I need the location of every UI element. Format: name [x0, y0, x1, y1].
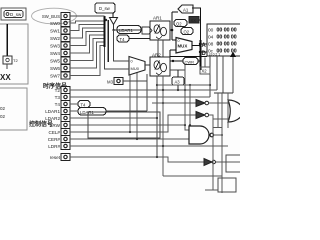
- wire M3 to MUX1 select: [123, 80, 147, 82]
- wire T3: [70, 96, 210, 98]
- output pin D_sw (top-left): [1, 8, 26, 20]
- input pin SW0: [50, 20, 70, 27]
- wire memory clock return: [214, 92, 233, 94]
- annotation box 1 (left, clipped): [0, 24, 28, 84]
- box bottom right 1: [226, 155, 246, 172]
- input pin SW4: [50, 50, 70, 57]
- svg-text:00: 00: [208, 28, 214, 34]
- svg-text:T3: T3: [55, 95, 61, 100]
- SW0-SW7 input pins: [50, 20, 70, 80]
- memory block: [207, 24, 244, 56]
- memory clock arrow: [230, 52, 236, 58]
- inverter G5 (bottom): [204, 159, 241, 166]
- wire vertical x213: [212, 119, 214, 190]
- svg-text:04: 04: [208, 35, 214, 41]
- wire SW3: [70, 32, 105, 46]
- AR2 second output: [170, 69, 185, 71]
- wires mux2 in: [172, 39, 176, 41]
- svg-text:02: 02: [0, 114, 6, 119]
- wire memory riser T3: [209, 56, 211, 97]
- wire: [189, 85, 191, 125]
- wire memory riser CE: [222, 56, 224, 93]
- wire CER#: [70, 138, 189, 140]
- svg-text:XX: XX: [191, 18, 197, 23]
- svg-text:T4: T4: [120, 37, 126, 42]
- long control wires: [70, 90, 228, 162]
- svg-text:SW3: SW3: [50, 44, 60, 49]
- svg-text:CER#: CER#: [48, 137, 61, 142]
- wire SW5: [70, 39, 105, 61]
- input pin SW2: [50, 35, 70, 42]
- wire LDAR2: [70, 117, 157, 119]
- inverter G2: [196, 112, 230, 120]
- wire D_sw to buffer: [112, 13, 114, 18]
- wire SW0: [70, 21, 105, 23]
- input pin T4: [55, 101, 70, 108]
- svg-text:00 00 00: 00 00 00: [217, 42, 237, 48]
- svg-text:MU0: MU0: [131, 66, 140, 71]
- inverter G1: [152, 100, 230, 107]
- right-bottom wires: [163, 93, 246, 193]
- label X2: [200, 58, 210, 75]
- svg-text:SW0: SW0: [50, 21, 60, 26]
- svg-text:SW1: SW1: [50, 29, 60, 34]
- svg-text:D: D: [202, 51, 207, 57]
- svg-text:T4: T4: [55, 102, 61, 107]
- wire SW2: [70, 28, 105, 38]
- wires below AR1: [157, 40, 159, 57]
- input pin SW_BUS: [42, 13, 70, 20]
- input pin LDAR1: [45, 108, 70, 115]
- svg-text:A3: A3: [175, 80, 181, 85]
- wire SW1: [70, 25, 105, 31]
- svg-text:CWR: CWR: [185, 60, 195, 65]
- svg-text:LRW: LRW: [50, 123, 61, 128]
- svg-text:SW_BUS: SW_BUS: [42, 14, 60, 19]
- register AR2: [150, 53, 170, 77]
- junction dots: [129, 84, 211, 158]
- wire loop bottom right: [163, 175, 222, 177]
- ellipse highlight SW_BUS: [32, 8, 77, 24]
- tag Q2: [174, 20, 187, 27]
- wire (memory bottom-left heavy): [170, 56, 207, 58]
- buffer (tri-state, pointing down): [110, 18, 118, 25]
- input tag into AR1: [142, 27, 152, 34]
- svg-text:T2: T2: [13, 58, 18, 63]
- svg-text:LDAR2: LDAR2: [45, 116, 60, 121]
- svg-text:0: 0: [131, 60, 133, 64]
- svg-text:02: 02: [0, 106, 6, 111]
- wires mux2 out to memory: [192, 44, 207, 46]
- svg-text:SW2: SW2: [50, 36, 60, 41]
- vertical long: [221, 93, 223, 193]
- wire SW7: [70, 46, 105, 76]
- input pin LRW: [50, 122, 70, 129]
- svg-text:reset: reset: [50, 155, 61, 160]
- tag LDAR1 (near pin): [78, 108, 106, 116]
- svg-text:D_sw: D_sw: [99, 6, 111, 11]
- tag A1: [178, 5, 193, 13]
- wire loop (88,112): [88, 112, 160, 138]
- wires into MUX1: [114, 30, 130, 61]
- svg-text:LDAR1: LDAR1: [119, 28, 133, 33]
- input pin SW3: [50, 42, 70, 49]
- wire T4 short: [70, 103, 78, 105]
- svg-text:SW6: SW6: [50, 66, 60, 71]
- wires below AR2: [156, 76, 158, 157]
- svg-text:CEL#: CEL#: [49, 130, 61, 135]
- svg-text:A1: A1: [183, 8, 189, 13]
- svg-text:T4: T4: [81, 102, 87, 107]
- svg-text:MUX: MUX: [178, 44, 188, 49]
- wire: [157, 84, 210, 86]
- input pin SW5: [50, 57, 70, 64]
- svg-text:SW5: SW5: [50, 59, 60, 64]
- tag T4 (near pin): [78, 101, 90, 108]
- pin T2 inside box1: [3, 56, 18, 69]
- wire SW4: [70, 35, 105, 53]
- svg-text:O2: O2: [184, 30, 190, 35]
- svg-text:LDR#: LDR#: [48, 144, 60, 149]
- svg-text:SW7: SW7: [50, 74, 60, 79]
- bus bundle vertical: [104, 16, 106, 47]
- label tag LDAR1: [117, 26, 141, 34]
- input pin LDAR2: [45, 115, 70, 122]
- MUX1 out: [145, 64, 150, 66]
- wire bottom y190: [205, 189, 218, 191]
- wire: [184, 65, 186, 125]
- AR2 out to tag CWR: [170, 60, 183, 62]
- wire T2: [70, 89, 217, 91]
- output pin D_sw (top middle): [95, 3, 115, 13]
- input pin SW6: [50, 65, 70, 72]
- input pin reset: [50, 154, 70, 161]
- svg-text:XX: XX: [0, 73, 11, 82]
- svg-text:D_sw: D_sw: [10, 12, 22, 17]
- tag O2: [181, 28, 193, 35]
- svg-text:Q2: Q2: [176, 22, 182, 27]
- wire LDAR1 short: [70, 110, 78, 112]
- memory contents: [208, 28, 237, 55]
- annotation box 2 (left, clipped): [0, 88, 27, 130]
- input pin SW1: [50, 27, 70, 34]
- wire in box1: [6, 24, 8, 56]
- mux MUX2 (top right): [176, 38, 192, 54]
- svg-text:00 00 00: 00 00 00: [217, 28, 237, 34]
- svg-text:SW4: SW4: [50, 51, 60, 56]
- wire: [114, 25, 143, 31]
- svg-text:A: A: [202, 43, 207, 49]
- input pin T3: [55, 94, 70, 101]
- wire MUX1 drop B: [136, 73, 138, 139]
- or gate G3: [228, 100, 245, 122]
- svg-text:st 0 2 1: st 0 2 1: [209, 53, 220, 57]
- input pin CER#: [48, 136, 70, 143]
- tag XX: [189, 17, 201, 24]
- wire AR1 output: [170, 29, 172, 31]
- svg-text:M3: M3: [107, 80, 114, 85]
- input pin CEL#: [49, 129, 71, 136]
- input pin T2: [55, 87, 70, 94]
- heavy net top-right: [172, 11, 178, 13]
- wire LDR#: [70, 145, 228, 147]
- register AR1: [150, 16, 170, 41]
- svg-text:AR1: AR1: [153, 16, 162, 21]
- input pin SW7: [50, 72, 70, 79]
- svg-text:LDAR1: LDAR1: [45, 109, 60, 114]
- tag A3: [172, 70, 184, 90]
- wire SW_BUS to bus: [70, 15, 105, 17]
- label tag T4: [117, 35, 150, 42]
- svg-text:0: 0: [178, 39, 180, 43]
- nand gate G4: [189, 126, 223, 144]
- input pin M3: [107, 78, 123, 85]
- svg-text:T2: T2: [55, 88, 61, 93]
- wire SW6: [70, 42, 105, 68]
- wire LRW: [70, 125, 189, 130]
- svg-text:00 00 00: 00 00 00: [217, 35, 237, 41]
- wire memory riser T2: [216, 56, 218, 90]
- box bottom right 2: [218, 178, 236, 192]
- svg-text:08: 08: [208, 42, 214, 48]
- svg-text:X2: X2: [202, 69, 208, 74]
- mux MUX1: [129, 57, 145, 76]
- wire MUX1 drop A: [129, 75, 131, 133]
- wire CEL#: [70, 115, 196, 132]
- wire reset: [70, 157, 204, 162]
- input pin LDR#: [48, 143, 70, 150]
